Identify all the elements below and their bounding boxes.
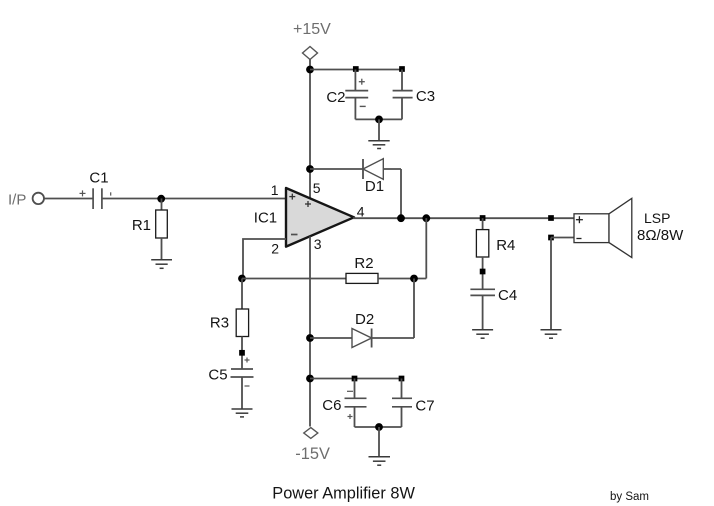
capacitor C1: [80, 188, 111, 209]
capacitor C2: [345, 79, 368, 107]
svg-text:R1: R1: [132, 217, 151, 234]
wire D1 down to output: [400, 169, 402, 218]
wire C3 bottom lead: [401, 98, 403, 120]
svg-text:5: 5: [313, 180, 321, 196]
svg-text:R4: R4: [496, 237, 515, 254]
wire feedback node down to R3: [241, 279, 243, 310]
svg-text:C2: C2: [326, 89, 345, 106]
svg-text:by Sam: by Sam: [610, 491, 649, 503]
resistor R4: [476, 230, 488, 257]
svg-text:3: 3: [314, 236, 322, 252]
wire output line: [353, 217, 574, 219]
wire R1 to ground: [161, 238, 163, 260]
wire to ground under C6 C7: [378, 427, 380, 457]
node junction R2 output: [422, 214, 430, 222]
wire C6 top lead: [354, 379, 356, 399]
wire R2 to corner: [378, 278, 426, 280]
wire D2 anode to -15V line: [310, 337, 352, 339]
svg-text:D1: D1: [365, 178, 384, 195]
node junction C6 C7 ground: [375, 423, 383, 431]
svg-text:2: 2: [271, 241, 279, 257]
op-amp plus mark pin 5: [305, 201, 311, 207]
wire C6 bottom lead: [354, 407, 356, 427]
node junction -15V rail: [306, 375, 314, 383]
node junction D1 on supply line: [306, 165, 314, 173]
node junction feedback: [238, 275, 246, 283]
resistor R3: [236, 309, 248, 337]
svg-text:D2: D2: [355, 311, 374, 328]
svg-text:C4: C4: [498, 287, 517, 304]
wire C6 C7 bottom join: [355, 426, 402, 428]
capacitor C4: [470, 289, 495, 295]
wire op-amp pin 2: [243, 239, 286, 279]
wire C4 to ground: [482, 295, 484, 329]
node square R4 top: [480, 215, 486, 221]
node junction +15V rail: [306, 66, 314, 74]
diode D1: [363, 159, 383, 180]
ground under C6 C7: [369, 457, 391, 465]
svg-text:-15V: -15V: [295, 445, 330, 463]
node square speaker minus: [548, 235, 554, 241]
diode D2: [352, 329, 372, 348]
capacitor C3: [393, 91, 413, 98]
svg-text:8Ω/8W: 8Ω/8W: [637, 227, 684, 244]
node square C3 top: [399, 66, 405, 72]
node square C7 top: [399, 376, 405, 382]
wire C5 to ground: [241, 377, 243, 409]
node square R4 C4: [480, 269, 486, 275]
svg-text:C5: C5: [208, 367, 227, 384]
capacitor C5: [231, 358, 254, 387]
wire C7 top lead: [401, 379, 403, 399]
wire C2 top lead: [354, 70, 356, 91]
wire C2 bottom lead: [354, 98, 356, 120]
wire junction to R1: [161, 199, 163, 211]
node square C6 top: [352, 376, 358, 382]
wire D2 cathode lead: [372, 337, 414, 339]
svg-text:+15V: +15V: [293, 21, 331, 38]
op-amp IC1: [286, 188, 354, 247]
wire -15V rail to C6 C7: [310, 378, 402, 380]
svg-text:Power Amplifier 8W: Power Amplifier 8W: [272, 485, 415, 503]
svg-text:1: 1: [271, 182, 279, 198]
op-amp minus mark pin 2: [291, 234, 298, 236]
wire C7 bottom lead: [401, 407, 403, 427]
ground under C5: [232, 409, 253, 417]
node square speaker plus: [548, 215, 554, 221]
node junction R1 input: [157, 195, 165, 203]
ground under R1: [151, 260, 172, 269]
wire feedback node to R2: [242, 278, 346, 280]
node junction D2 cathode feedback: [410, 275, 418, 283]
node square R3 C5: [239, 350, 245, 356]
wire R4 bottom lead: [482, 257, 484, 289]
wire +15V diamond down to op-amp pin 5: [309, 60, 311, 199]
wire D2 cathode up to feedback line: [413, 279, 415, 339]
node junction D1 output: [397, 214, 405, 222]
svg-text:4: 4: [357, 203, 365, 219]
ground under speaker: [541, 330, 562, 338]
node junction D2 anode on -15V line: [306, 334, 314, 342]
capacitor C6: [345, 391, 367, 419]
wire C3 top lead: [401, 70, 403, 91]
wire +15V rail to C2 C3: [310, 69, 402, 71]
wire input terminal to C1: [44, 198, 93, 200]
svg-text:C3: C3: [416, 88, 435, 105]
svg-text:I/P: I/P: [8, 191, 26, 208]
svg-text:C7: C7: [415, 397, 434, 414]
ground under C2 C3: [368, 141, 389, 149]
wire C2 C3 bottom join: [355, 118, 402, 120]
resistor R2: [346, 273, 378, 283]
ground under C4: [472, 330, 493, 338]
resistor R1: [156, 210, 168, 238]
node +15V supply diamond: [303, 47, 318, 60]
svg-text:C1: C1: [89, 170, 108, 187]
svg-text:LSP: LSP: [644, 210, 670, 226]
node -15V supply diamond: [304, 428, 318, 439]
wire D1 anode lead: [383, 168, 401, 170]
wire speaker ground vertical: [550, 238, 552, 330]
speaker LSP: [574, 198, 632, 257]
wire to ground under C2 C3: [378, 119, 380, 140]
svg-text:IC1: IC1: [254, 209, 277, 226]
wire op-amp pin 3 down to -15V: [309, 237, 311, 427]
capacitor C7: [392, 398, 412, 407]
wire R2 right vertical to output: [425, 218, 427, 278]
wire C1 to op-amp pin 1: [102, 198, 286, 200]
svg-text:R3: R3: [210, 315, 229, 332]
wire R4 top lead: [482, 218, 484, 229]
node junction C2 C3 ground: [375, 116, 383, 124]
svg-text:C6: C6: [322, 397, 341, 414]
op-amp plus mark pin 1: [289, 194, 295, 200]
wire D1 cathode to supply line: [310, 168, 363, 170]
node I/P input terminal: [33, 193, 44, 204]
node square C2 top: [353, 66, 359, 72]
wire R3 to C5: [241, 337, 243, 370]
svg-text:R2: R2: [354, 255, 373, 272]
wire speaker minus to ground drop: [551, 237, 574, 239]
